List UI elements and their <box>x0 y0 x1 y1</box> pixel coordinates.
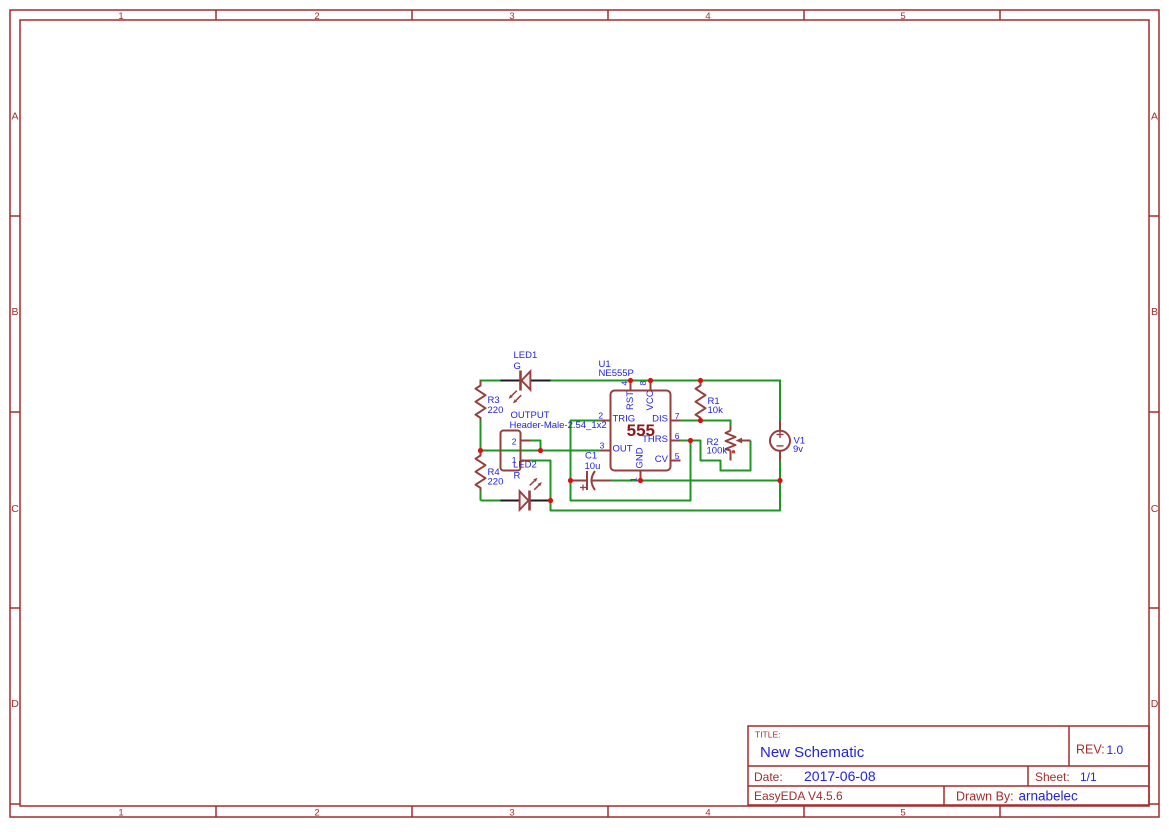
svg-text:1/1: 1/1 <box>1080 770 1097 784</box>
svg-text:6: 6 <box>675 431 680 441</box>
svg-text:B: B <box>11 306 18 318</box>
svg-text:G: G <box>514 361 521 372</box>
svg-text:5: 5 <box>900 807 905 818</box>
svg-text:GND: GND <box>635 447 646 468</box>
svg-text:TRIG: TRIG <box>613 413 636 424</box>
svg-text:8: 8 <box>638 381 648 386</box>
svg-text:1: 1 <box>118 11 123 22</box>
svg-text:1.0: 1.0 <box>1107 743 1124 757</box>
svg-text:D: D <box>1151 698 1159 710</box>
svg-text:C: C <box>1151 503 1159 515</box>
svg-text:Drawn By:: Drawn By: <box>956 790 1014 804</box>
svg-text:1: 1 <box>118 807 123 818</box>
svg-text:10u: 10u <box>585 461 601 472</box>
svg-text:10k: 10k <box>708 405 724 416</box>
svg-text:RST: RST <box>625 391 636 410</box>
svg-text:4: 4 <box>619 381 629 386</box>
svg-text:VCC: VCC <box>645 390 656 410</box>
svg-text:3: 3 <box>600 441 605 451</box>
svg-text:2017-06-08: 2017-06-08 <box>804 768 876 784</box>
svg-text:B: B <box>1151 306 1158 318</box>
svg-text:A: A <box>1151 111 1158 123</box>
svg-text:5: 5 <box>900 11 905 22</box>
svg-text:CV: CV <box>655 454 669 465</box>
svg-text:A: A <box>11 111 18 123</box>
svg-text:2: 2 <box>314 11 319 22</box>
svg-text:220: 220 <box>488 477 504 488</box>
svg-text:9v: 9v <box>793 444 803 455</box>
svg-text:LED2: LED2 <box>513 459 537 470</box>
svg-text:REV:: REV: <box>1076 743 1105 757</box>
svg-text:5: 5 <box>675 451 680 461</box>
svg-text:2: 2 <box>512 436 517 446</box>
svg-text:OUT: OUT <box>613 443 633 454</box>
svg-text:Sheet:: Sheet: <box>1035 770 1070 784</box>
svg-text:100k: 100k <box>707 446 728 457</box>
svg-text:1: 1 <box>629 477 639 482</box>
svg-text:D: D <box>11 698 19 710</box>
svg-text:2: 2 <box>598 411 603 421</box>
svg-text:220: 220 <box>488 405 504 416</box>
svg-text:NE555P: NE555P <box>599 368 634 379</box>
svg-text:Date:: Date: <box>754 770 783 784</box>
svg-text:3: 3 <box>509 807 514 818</box>
svg-text:DIS: DIS <box>652 413 668 424</box>
svg-text:1: 1 <box>512 455 517 465</box>
svg-text:arnabelec: arnabelec <box>1019 789 1079 804</box>
svg-text:Header-Male-2.54_1x2: Header-Male-2.54_1x2 <box>510 420 607 431</box>
svg-text:2: 2 <box>314 807 319 818</box>
svg-text:TITLE:: TITLE: <box>755 730 781 740</box>
svg-text:4: 4 <box>705 11 710 22</box>
svg-text:4: 4 <box>705 807 710 818</box>
svg-text:3: 3 <box>509 11 514 22</box>
svg-text:R: R <box>514 470 521 481</box>
svg-text:C: C <box>11 503 19 515</box>
svg-text:THRS: THRS <box>642 434 668 445</box>
svg-text:LED1: LED1 <box>514 350 538 361</box>
svg-text:New Schematic: New Schematic <box>760 744 865 761</box>
svg-text:EasyEDA V4.5.6: EasyEDA V4.5.6 <box>754 789 843 803</box>
svg-text:7: 7 <box>675 411 680 421</box>
